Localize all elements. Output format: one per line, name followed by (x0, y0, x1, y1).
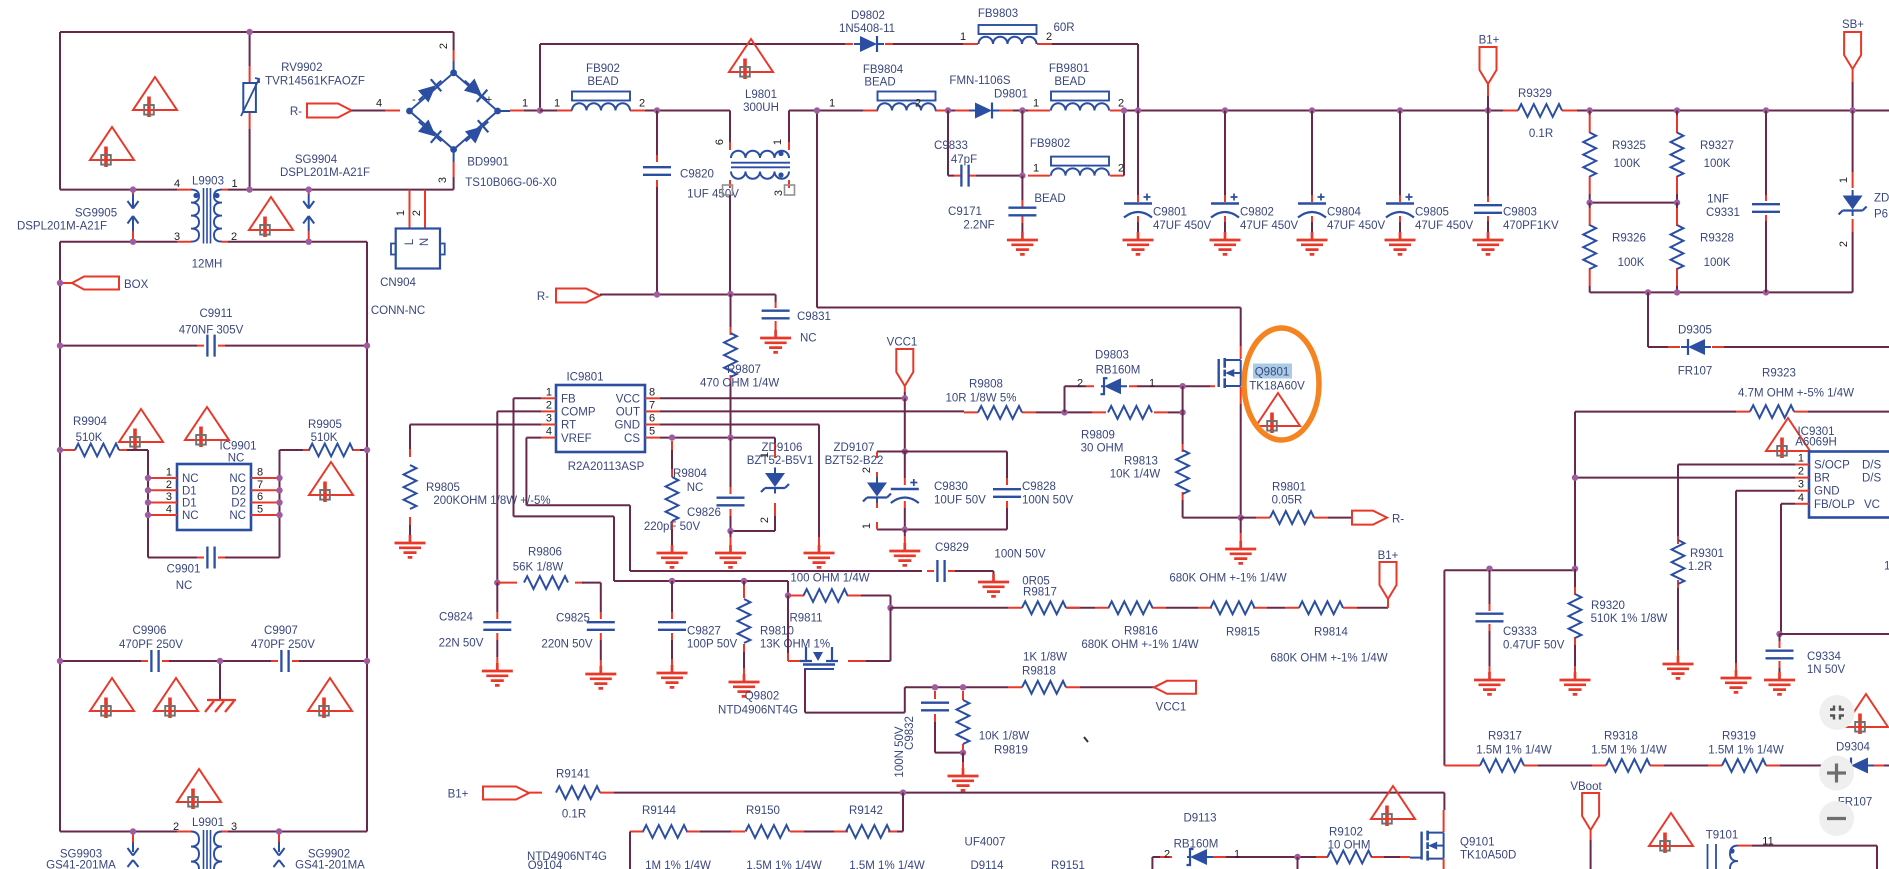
svg-text:47UF 450V: 47UF 450V (1327, 220, 1386, 232)
IC9801 body (556, 385, 645, 452)
ground (1663, 656, 1694, 678)
svg-text:A6069H: A6069H (1795, 437, 1837, 449)
wire snubber right edge (1006, 452, 1008, 530)
zener diode ZD9301 (1852, 111, 1854, 293)
svg-text:R9320: R9320 (1591, 600, 1625, 612)
svg-text:1.5M 1% 1/4W: 1.5M 1% 1/4W (1708, 745, 1784, 757)
capacitor C9906 (60, 660, 220, 662)
wire R- node y=294 (600, 294, 776, 296)
pin 1 BD9901 (498, 110, 510, 112)
zener diode ZD9106 (731, 438, 776, 531)
svg-text:BEAD: BEAD (1034, 193, 1065, 205)
svg-text:R9325: R9325 (1612, 140, 1646, 152)
svg-text:ZD9106: ZD9106 (762, 442, 803, 454)
ground (585, 666, 616, 688)
svg-text:13K OHM 1%: 13K OHM 1% (760, 639, 830, 651)
pin 1 FB wire (541, 397, 556, 399)
wire B1+ rail (614, 792, 1444, 794)
warning triangle (90, 678, 134, 718)
svg-text:RB160M: RB160M (1096, 365, 1141, 377)
resistor R9804 (671, 441, 673, 450)
svg-text:FB9803: FB9803 (978, 8, 1018, 20)
ground (948, 768, 979, 790)
svg-text:1: 1 (522, 98, 528, 110)
svg-text:1.5M 1% 1/4W: 1.5M 1% 1/4W (849, 860, 925, 869)
svg-text:2: 2 (1118, 163, 1124, 175)
svg-text:C9804: C9804 (1327, 207, 1361, 219)
pin 4 FB/OLP wire (1795, 503, 1809, 505)
svg-text:D9802: D9802 (851, 10, 885, 22)
svg-text:470NF 305V: 470NF 305V (179, 325, 244, 337)
connector R- out (1352, 511, 1387, 525)
pin 8 IC9901 (251, 477, 280, 479)
svg-text:R9804: R9804 (673, 468, 707, 480)
ground (889, 543, 920, 565)
warning triangle (1256, 393, 1300, 433)
svg-text:FMN-1106S: FMN-1106S (949, 75, 1010, 87)
ground (1123, 232, 1154, 254)
svg-text:1: 1 (166, 467, 172, 479)
svg-text:1: 1 (1838, 177, 1850, 183)
warning triangle (1766, 418, 1810, 458)
svg-text:TK10A50D: TK10A50D (1460, 850, 1516, 862)
svg-text:VCC1: VCC1 (1156, 702, 1187, 714)
svg-text:1: 1 (829, 98, 835, 110)
svg-text:C9171: C9171 (948, 206, 982, 218)
snubber box C9830 C9828 (877, 452, 1007, 530)
svg-text:C9805: C9805 (1415, 207, 1449, 219)
svg-text:2: 2 (173, 821, 179, 833)
svg-text:NC: NC (229, 473, 246, 485)
svg-text:BZT52-B5V1: BZT52-B5V1 (747, 455, 813, 467)
wire Q9801 source ground (1240, 518, 1242, 533)
svg-text:C9331: C9331 (1706, 207, 1740, 219)
resistor R9816 (1095, 607, 1166, 609)
svg-text:+: + (486, 94, 492, 106)
svg-text:3: 3 (546, 413, 552, 425)
capacitor C9820 (654, 107, 660, 113)
wire main bus y=110 (540, 110, 1889, 112)
svg-text:1.5M 1% 1/4W: 1.5M 1% 1/4W (746, 860, 822, 869)
svg-text:680K OHM +-1% 1/4W: 680K OHM +-1% 1/4W (1081, 639, 1198, 651)
svg-text:R9328: R9328 (1700, 233, 1734, 245)
svg-text:R9151: R9151 (1051, 860, 1085, 869)
svg-text:2: 2 (438, 43, 450, 49)
svg-text:GS41-201MA: GS41-201MA (295, 860, 365, 869)
transformer L9801 (730, 111, 789, 143)
svg-text:VCC: VCC (616, 394, 640, 406)
svg-text:1: 1 (1149, 378, 1155, 390)
wire R9904 row (127, 450, 148, 558)
map control circle minus (1819, 801, 1854, 836)
ferrite bead FB9804 (863, 110, 950, 112)
svg-text:NC: NC (228, 453, 245, 465)
svg-text:R9817: R9817 (1023, 587, 1057, 599)
svg-text:R-: R- (537, 291, 549, 303)
varistor RV9902 (249, 32, 251, 190)
connector VCC1 out (1154, 681, 1196, 694)
pin 4 VREF wire (541, 437, 556, 439)
wire VCC1 rail (904, 398, 906, 451)
svg-text:GND: GND (614, 420, 640, 432)
resistor R9819 (962, 691, 964, 753)
common-mode choke L9903 (177, 190, 228, 242)
ground (978, 574, 1009, 596)
warning triangle (154, 678, 198, 718)
ferrite bead FB9802 (1019, 172, 1025, 178)
svg-text:4: 4 (166, 504, 172, 516)
wire bottom row (60, 831, 367, 833)
capacitor C9803 (1485, 107, 1491, 113)
ground (1210, 232, 1241, 254)
resistor R9904 (60, 449, 127, 451)
svg-text:L9901: L9901 (192, 817, 224, 829)
svg-text:CN904: CN904 (380, 277, 416, 289)
svg-text:R9805: R9805 (426, 482, 460, 494)
zener diode ZD9107 (876, 452, 878, 530)
svg-text:4: 4 (174, 178, 180, 190)
ground (715, 545, 746, 567)
ground (1385, 232, 1416, 254)
svg-text:R-: R- (290, 106, 302, 118)
svg-text:510K 1% 1/8W: 510K 1% 1/8W (1591, 613, 1668, 625)
svg-text:6: 6 (649, 413, 655, 425)
svg-text:2: 2 (1077, 378, 1083, 390)
svg-text:0.1R: 0.1R (562, 809, 586, 821)
svg-text:1: 1 (546, 386, 552, 398)
pin 3 GND wire (1795, 490, 1809, 492)
svg-text:C9901: C9901 (167, 564, 201, 576)
resistor R9808 (964, 411, 1036, 413)
capacitor C9828 (1006, 478, 1008, 508)
warning triangle (90, 127, 134, 167)
capacitor C9824 (496, 583, 498, 612)
svg-text:C9828: C9828 (1022, 481, 1056, 493)
wire right rail x=367 (366, 242, 368, 832)
wire Q9802 gate leg (788, 653, 800, 661)
svg-text:NC: NC (176, 580, 193, 592)
svg-text:2: 2 (1838, 241, 1850, 247)
svg-text:R9905: R9905 (308, 419, 342, 431)
pin 7 OUT wire (645, 410, 660, 412)
svg-text:2: 2 (639, 98, 645, 110)
svg-text:Q9802: Q9802 (745, 691, 780, 703)
svg-text:Q9104: Q9104 (528, 860, 563, 869)
svg-text:680K OHM +-1% 1/4W: 680K OHM +-1% 1/4W (1270, 653, 1387, 665)
svg-text:470PF 250V: 470PF 250V (251, 639, 315, 651)
svg-text:D/S: D/S (1862, 473, 1882, 485)
resistor R9327 (1674, 107, 1680, 113)
svg-text:100N 50V: 100N 50V (1022, 495, 1073, 507)
resistor R9328 (1676, 208, 1678, 286)
capacitor C9831 (775, 295, 777, 303)
svg-text:VC: VC (1864, 499, 1880, 511)
svg-text:NC: NC (182, 473, 199, 485)
svg-text:OUT: OUT (616, 407, 640, 419)
wire CS sense line (891, 600, 1389, 608)
svg-text:D9305: D9305 (1678, 325, 1712, 337)
warning triangle (1649, 813, 1693, 853)
svg-text:510K: 510K (311, 432, 338, 444)
svg-text:R9301: R9301 (1690, 548, 1724, 560)
svg-text:2: 2 (1046, 31, 1052, 43)
ground (1474, 672, 1505, 694)
svg-text:100P 50V: 100P 50V (687, 639, 738, 651)
svg-text:C9829: C9829 (935, 542, 969, 554)
svg-text:DSPL201M-A21F: DSPL201M-A21F (280, 167, 370, 179)
ground (657, 545, 688, 567)
map control circle plus (1819, 756, 1854, 791)
svg-text:100K: 100K (1704, 257, 1731, 269)
svg-text:1: 1 (861, 523, 873, 529)
svg-text:C9334: C9334 (1807, 651, 1841, 663)
resistor R9319 (1708, 765, 1780, 767)
capacitor C9911 (60, 345, 367, 347)
svg-text:R9317: R9317 (1488, 731, 1522, 743)
svg-text:R9819: R9819 (994, 745, 1028, 757)
svg-text:R9809: R9809 (1081, 430, 1115, 442)
capacitor C9171 (1021, 176, 1023, 232)
pin 3 BD9901 (453, 150, 455, 163)
svg-text:7: 7 (649, 399, 655, 411)
node dots (246, 29, 252, 35)
svg-text:CS: CS (624, 433, 640, 445)
svg-text:1K 1/8W: 1K 1/8W (1023, 652, 1067, 664)
pin 6 GND wire (645, 424, 660, 426)
capacitor C9829 (927, 570, 955, 572)
pin 2 BD9901 (453, 32, 455, 50)
warning triangle (309, 462, 353, 502)
resistor R9326 (1589, 208, 1591, 286)
capacitor C9907 (220, 660, 367, 662)
wire AC input top loop (60, 32, 454, 190)
svg-text:R9150: R9150 (746, 805, 780, 817)
svg-text:RB160M: RB160M (1174, 839, 1219, 851)
capacitor C9826 (730, 438, 732, 487)
transistor Q9802 (800, 647, 838, 661)
svg-text:R9814: R9814 (1314, 627, 1348, 639)
resistor R9329 (1503, 110, 1577, 112)
svg-text:10UF 50V: 10UF 50V (934, 495, 986, 507)
warning triangle (308, 678, 352, 718)
svg-text:SG9904: SG9904 (295, 154, 338, 166)
svg-text:1N5408-11: 1N5408-11 (839, 23, 895, 35)
diode D9113 (1187, 849, 1214, 865)
pin 1 S/OCP wire (1795, 464, 1809, 466)
pin 3 RT wire (541, 424, 556, 426)
wire line1 y=190 (60, 189, 454, 191)
svg-text:R9102: R9102 (1329, 827, 1363, 839)
svg-text:47UF 450V: 47UF 450V (1153, 220, 1212, 232)
electrolytic capacitor C9801 (1135, 107, 1141, 113)
spark gap SG9903 (132, 832, 134, 843)
svg-text:C9801: C9801 (1153, 207, 1187, 219)
svg-text:D9803: D9803 (1095, 350, 1129, 362)
svg-text:R9319: R9319 (1722, 731, 1756, 743)
svg-text:IC9801: IC9801 (566, 372, 603, 384)
resistor R9811 (790, 595, 861, 597)
svg-text:4.7M OHM +-5% 1/4W: 4.7M OHM +-5% 1/4W (1738, 388, 1854, 400)
svg-text:B1+: B1+ (1479, 35, 1500, 47)
wire left rail x=60 (59, 242, 61, 832)
svg-text:D1: D1 (182, 498, 197, 510)
svg-text:1: 1 (1798, 453, 1804, 465)
svg-text:C9820: C9820 (680, 169, 714, 181)
svg-text:47UF 450V: 47UF 450V (1240, 220, 1299, 232)
ground (657, 665, 688, 687)
svg-text:C9831: C9831 (797, 311, 831, 323)
svg-text:300UH: 300UH (743, 102, 779, 114)
svg-text:100K: 100K (1618, 257, 1645, 269)
resistor R9818 (1008, 686, 1080, 688)
svg-text:ZD9107: ZD9107 (834, 442, 875, 454)
svg-text:470PF1KV: 470PF1KV (1503, 220, 1559, 232)
svg-text:2: 2 (1798, 466, 1804, 478)
warning triangle (133, 77, 177, 117)
svg-text:D2: D2 (231, 498, 246, 510)
pin 8 VCC wire (645, 397, 660, 399)
pin 2 IC9901 (148, 489, 177, 491)
svg-text:R9318: R9318 (1604, 731, 1638, 743)
svg-text:R9815: R9815 (1226, 627, 1260, 639)
resistor R9141 (529, 792, 614, 794)
svg-text:4: 4 (376, 98, 382, 110)
ground (1007, 232, 1038, 254)
svg-text:R-: R- (1392, 514, 1404, 526)
resistor R9320 (1574, 587, 1576, 645)
svg-text:10R 1/8W 5%: 10R 1/8W 5% (946, 393, 1017, 405)
svg-text:1.5M 1% 1/4W: 1.5M 1% 1/4W (1591, 745, 1667, 757)
svg-text:COMP: COMP (561, 407, 596, 419)
wire VCC1 ground leg (904, 530, 906, 537)
wire R914x chain riser (888, 793, 903, 832)
svg-text:GND: GND (1814, 486, 1840, 498)
svg-text:1: 1 (1234, 849, 1240, 861)
svg-text:UF4007: UF4007 (965, 837, 1006, 849)
pin 2 COMP wire (541, 410, 556, 412)
svg-text:TK18A60V: TK18A60V (1249, 381, 1305, 393)
svg-text:TS10B06G-06-X0: TS10B06G-06-X0 (465, 177, 556, 189)
svg-text:220N 50V: 220N 50V (541, 639, 592, 651)
connector R- input (307, 104, 352, 118)
svg-text:4: 4 (546, 426, 552, 438)
svg-text:1NF: 1NF (1707, 194, 1729, 206)
svg-text:R9142: R9142 (849, 805, 883, 817)
wire divider bottom (1590, 291, 1853, 293)
svg-text:C9333: C9333 (1503, 626, 1537, 638)
svg-text:2: 2 (231, 231, 237, 243)
svg-text:BEAD: BEAD (1054, 76, 1085, 88)
svg-text:1: 1 (1033, 98, 1039, 110)
ferrite bead FB902 (557, 110, 645, 112)
svg-text:60R: 60R (1053, 22, 1074, 34)
svg-text:D2: D2 (231, 485, 246, 497)
svg-text:0.47UF 50V: 0.47UF 50V (1503, 640, 1565, 652)
resistor R9317 (1444, 765, 1538, 767)
spark gap SG9905 (132, 190, 134, 242)
diode D9305 (1648, 292, 1889, 347)
svg-text:RV9902: RV9902 (281, 62, 322, 74)
ground (482, 663, 513, 685)
transformer T9101 (1708, 844, 1717, 869)
svg-text:DSPL201M-A21F: DSPL201M-A21F (17, 221, 107, 233)
ferrite bead FB9803 (963, 43, 1052, 45)
svg-text:0.05R: 0.05R (1272, 495, 1303, 507)
svg-text:47UF 450V: 47UF 450V (1415, 220, 1474, 232)
ground (760, 330, 791, 352)
svg-text:C9906: C9906 (133, 625, 167, 637)
svg-text:2.2NF: 2.2NF (963, 220, 994, 232)
svg-text:VBoot: VBoot (1570, 781, 1602, 793)
resistor R9102 (1316, 856, 1384, 858)
electrolytic capacitor C9804 (1309, 107, 1315, 113)
svg-text:3: 3 (773, 190, 785, 196)
svg-text:BZT52-B22: BZT52-B22 (825, 455, 884, 467)
svg-text:NC: NC (687, 482, 704, 494)
svg-text:D9113: D9113 (1183, 813, 1216, 825)
resistor R9817 (1008, 607, 1080, 609)
svg-text:NC: NC (229, 510, 246, 522)
wire drain net top (817, 111, 1241, 347)
map control circle 1 (1820, 695, 1855, 730)
svg-text:IC9901: IC9901 (219, 441, 256, 453)
ground (804, 545, 835, 567)
warning triangle (177, 769, 221, 809)
svg-text:2: 2 (759, 517, 771, 523)
optocoupler IC9901 (177, 464, 251, 530)
svg-text:TVR14561KFAOZF: TVR14561KFAOZF (265, 76, 365, 88)
svg-text:510K: 510K (76, 432, 103, 444)
svg-text:C9826: C9826 (687, 507, 721, 519)
svg-text:1: 1 (960, 31, 966, 43)
svg-text:R9144: R9144 (642, 805, 676, 817)
svg-text:3: 3 (1798, 479, 1804, 491)
svg-text:L9903: L9903 (192, 176, 224, 188)
ground (1297, 232, 1328, 254)
svg-text:BEAD: BEAD (864, 77, 895, 89)
svg-text:6: 6 (714, 139, 726, 145)
svg-text:NC: NC (182, 510, 199, 522)
electrolytic capacitor C9830 (904, 452, 906, 479)
svg-text:1: 1 (1033, 163, 1039, 175)
IC9301 body (1809, 452, 1889, 518)
chassis ground (219, 661, 221, 700)
svg-text:GS41-201MA: GS41-201MA (46, 860, 116, 869)
resistor R9905 (280, 450, 304, 558)
svg-text:10K 1/8W: 10K 1/8W (979, 731, 1030, 743)
resistor R9301 (1677, 536, 1679, 588)
svg-text:7: 7 (257, 479, 263, 491)
resistor R9805 (409, 425, 411, 450)
svg-text:100K: 100K (1614, 158, 1641, 170)
pin 5 CS wire (645, 437, 660, 439)
svg-text:22N 50V: 22N 50V (439, 638, 484, 650)
svg-text:R9813: R9813 (1124, 456, 1158, 468)
diode D9802 (845, 43, 893, 45)
wire BR divider loop (1443, 570, 1445, 765)
svg-text:L: L (404, 238, 416, 245)
svg-text:12MH: 12MH (192, 259, 223, 271)
svg-text:1: 1 (772, 139, 784, 145)
wire line2 y=242 (60, 241, 367, 243)
svg-text:R9818: R9818 (1022, 666, 1056, 678)
svg-text:SB+: SB+ (1842, 19, 1864, 31)
capacitor C9334 (1779, 634, 1781, 641)
spark gap SG9902 (278, 832, 280, 843)
spark gap SG9904 (308, 190, 310, 242)
svg-text:R9327: R9327 (1700, 140, 1734, 152)
svg-text:1: 1 (1884, 561, 1889, 573)
